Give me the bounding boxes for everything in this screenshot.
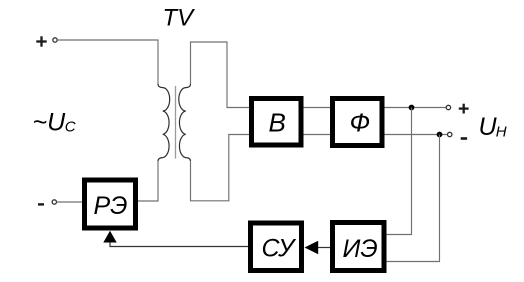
wire F to output minus	[385, 134, 448, 136]
wire secondary top to V block	[191, 42, 250, 108]
svg-text:C: C	[65, 119, 76, 136]
block SU (control unit)	[251, 223, 302, 271]
wire V to F top	[304, 107, 331, 109]
svg-text:TV: TV	[163, 4, 196, 31]
junction dot top	[409, 105, 415, 111]
transformer T primary winding	[158, 84, 170, 161]
input terminal + (open circle)	[53, 38, 57, 42]
block F (filter)	[333, 99, 383, 146]
svg-text:Ф: Ф	[350, 108, 371, 138]
wire F to output plus	[385, 107, 447, 109]
wire input plus to transformer primary top	[57, 40, 158, 84]
block V (rectifier)	[252, 99, 302, 146]
arrowhead IE to SU	[305, 241, 319, 255]
label + (input plus)	[36, 36, 46, 46]
input terminal - (open circle)	[52, 200, 56, 204]
wire sense top: junction to IE right upper	[387, 108, 412, 235]
svg-text:~U: ~U	[33, 108, 67, 136]
block IE (measuring element)	[333, 223, 385, 271]
block RE (regulating element)	[85, 180, 136, 228]
svg-text:U: U	[479, 113, 498, 141]
wire minus terminal to RE	[57, 201, 83, 203]
wire primary bottom to RE level	[138, 161, 158, 201]
wire IE to SU	[318, 247, 331, 249]
svg-text:В: В	[269, 108, 286, 138]
wire sense bottom: junction to IE right lower	[387, 135, 440, 262]
output terminal - (open circle)	[448, 132, 452, 136]
wire secondary bottom to V block	[191, 135, 250, 201]
output terminal + (open circle)	[446, 105, 450, 109]
label - (output)	[461, 137, 467, 140]
transformer core	[175, 86, 177, 159]
wire V to F bottom	[304, 134, 331, 136]
transformer secondary winding	[179, 84, 191, 161]
svg-text:ИЭ: ИЭ	[343, 235, 378, 263]
svg-text:H: H	[496, 124, 507, 141]
junction dot bottom	[437, 132, 443, 138]
label - (input minus)	[38, 203, 44, 205]
label + (output)	[459, 104, 469, 114]
arrowhead SU to RE	[103, 231, 116, 243]
svg-text:СУ: СУ	[262, 235, 298, 263]
svg-text:РЭ: РЭ	[94, 192, 128, 220]
wire SU to RE arrow corner	[110, 242, 248, 247]
